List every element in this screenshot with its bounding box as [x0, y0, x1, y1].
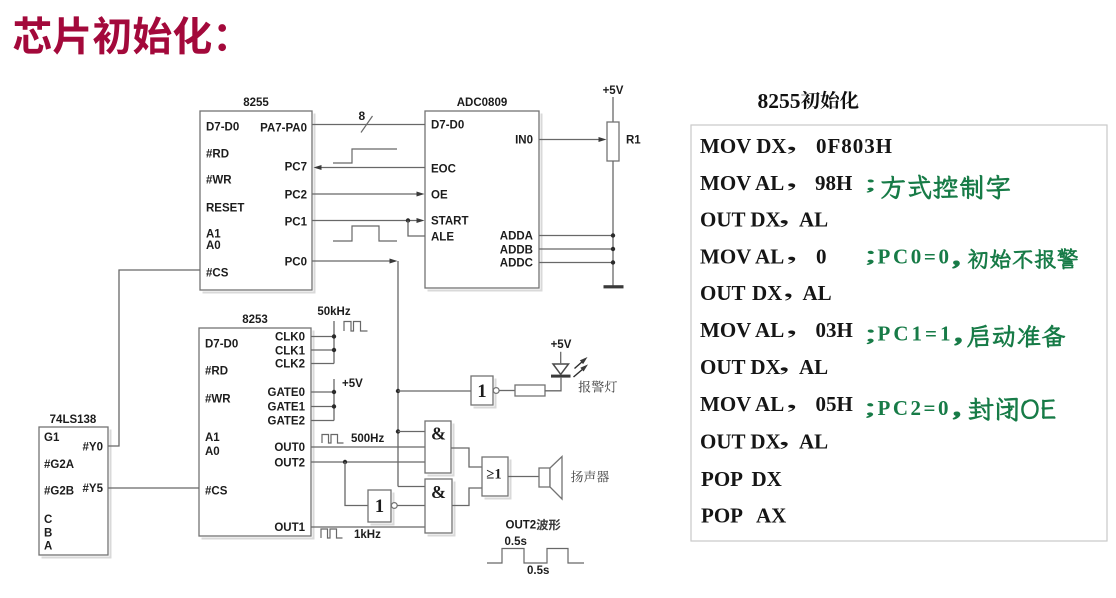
wire CLK2 — [311, 363, 334, 365]
svg-text:A: A — [44, 541, 52, 553]
svg-text:PA7-PA0: PA7-PA0 — [260, 123, 307, 135]
LED D1 cathode bar — [551, 375, 571, 378]
svg-text:+5V: +5V — [342, 378, 363, 390]
svg-text:A1: A1 — [205, 432, 220, 444]
LED light arrow 2 — [574, 369, 584, 378]
wire IN0 to R1 — [539, 139, 600, 141]
wire PC0 node to inverter U9 — [398, 390, 471, 392]
svg-text:#G2B: #G2B — [44, 486, 74, 498]
wire OUT2 branch to inverter — [345, 462, 368, 506]
wire #Y0 to 8255 #CS — [108, 270, 200, 446]
svg-text:AX: AX — [756, 503, 786, 527]
wire PC0 branch to AND1 — [398, 431, 425, 433]
svg-text:OUT DX: OUT DX — [700, 208, 781, 232]
IC U3 8253 body — [202, 331, 314, 539]
node ADDA — [611, 233, 615, 237]
wire CLK1 — [311, 349, 334, 351]
wire OUT2 to AND1 — [311, 461, 425, 463]
waveform rising edge (EOC) — [333, 149, 397, 163]
svg-text:PC2=0: PC2=0 — [878, 396, 949, 420]
svg-text:PC1: PC1 — [285, 217, 308, 229]
svg-text:MOV AL: MOV AL — [700, 318, 784, 342]
wire AND2 out to OR — [452, 488, 482, 506]
AND gate U6 body — [428, 424, 454, 476]
svg-text:PC1=1: PC1=1 — [878, 322, 951, 346]
svg-text:OUT: OUT — [700, 281, 746, 305]
wire ADDB to net — [539, 248, 613, 250]
junction dot START/ALE branch — [406, 218, 410, 222]
svg-text:OE: OE — [431, 190, 448, 202]
code comment 6 ；PC1=1，启动准备 — [867, 330, 874, 344]
svg-text:8: 8 — [359, 109, 366, 123]
svg-text:#WR: #WR — [206, 175, 232, 187]
svg-text:#Y0: #Y0 — [83, 442, 103, 454]
arrowhead PC0 corner — [390, 259, 398, 264]
waveform symbol 500Hz — [322, 435, 344, 444]
ground — [604, 285, 624, 288]
svg-text:03H: 03H — [816, 318, 853, 342]
speaker cone box — [539, 468, 550, 487]
svg-text:AL: AL — [799, 429, 828, 453]
svg-text:#Y5: #Y5 — [83, 483, 104, 495]
wire PC0 vertical run — [397, 261, 399, 487]
node PC0 to alarm inverter — [396, 389, 400, 393]
svg-text:B: B — [44, 528, 52, 540]
svg-text:AL: AL — [803, 281, 832, 305]
svg-text:ALE: ALE — [431, 232, 454, 244]
svg-text:0.5s: 0.5s — [527, 565, 549, 577]
wire OUT0 to AND1 — [311, 446, 425, 448]
svg-text:#CS: #CS — [205, 486, 228, 498]
inverter U5 bubble — [391, 503, 397, 509]
svg-text:0.5s: 0.5s — [505, 536, 527, 548]
arrowhead into R1 — [599, 137, 607, 142]
arrowhead into PC7 — [314, 165, 322, 170]
svg-text:ADDC: ADDC — [500, 258, 533, 270]
svg-text:GATE0: GATE0 — [268, 387, 306, 399]
node GATE0 — [332, 390, 336, 394]
slide title 芯片初始化： — [14, 16, 227, 55]
svg-text:8255: 8255 — [243, 97, 269, 109]
svg-text:#WR: #WR — [205, 394, 231, 406]
svg-text:MOV DX: MOV DX — [700, 134, 787, 158]
svg-text:MOV AL: MOV AL — [700, 392, 784, 416]
waveform symbol 50kHz — [344, 322, 368, 332]
code comment 4 ；PC0=0，初始不报警 — [867, 251, 874, 265]
waveform pulse (START) — [333, 226, 397, 241]
svg-text:PC0: PC0 — [285, 257, 307, 269]
svg-text:MOV AL: MOV AL — [700, 244, 784, 268]
IC U2 ADC0809 body — [428, 114, 542, 291]
svg-text:IN0: IN0 — [515, 135, 533, 147]
svg-text:GATE2: GATE2 — [268, 416, 306, 428]
code comment 2 ；方式控制字 — [867, 180, 874, 192]
svg-text:&: & — [431, 482, 446, 502]
label OUT2波形 (CJK) — [537, 519, 561, 531]
svg-text:D7-D0: D7-D0 — [205, 339, 238, 351]
svg-text:EOC: EOC — [431, 164, 456, 176]
svg-text:MOV AL: MOV AL — [700, 171, 784, 195]
wire resistor to LED — [545, 378, 562, 391]
svg-text:#RD: #RD — [206, 149, 229, 161]
svg-text:OUT DX: OUT DX — [700, 429, 781, 453]
svg-text:CLK2: CLK2 — [275, 359, 305, 371]
svg-text:D7-D0: D7-D0 — [431, 120, 464, 132]
code header 初始化 (CJK) — [801, 91, 859, 109]
speaker horn — [550, 457, 562, 500]
svg-text:DX: DX — [752, 467, 782, 491]
svg-text:OUT2: OUT2 — [506, 520, 537, 532]
svg-text:#G2A: #G2A — [44, 459, 74, 471]
svg-text:8255: 8255 — [758, 89, 801, 113]
wire +5V lead — [612, 97, 614, 122]
resistor R1 — [607, 122, 619, 161]
svg-text:0F803H: 0F803H — [816, 134, 892, 158]
bus slash mark — [361, 116, 373, 133]
wire PC0 branch to AND2 — [398, 486, 425, 488]
svg-text:RESET: RESET — [206, 203, 244, 215]
svg-text:DX: DX — [752, 281, 782, 305]
wire EOC to PC7 — [316, 167, 425, 169]
IC U1 8255 body — [203, 114, 315, 293]
svg-text:+5V: +5V — [551, 339, 572, 351]
wire ADDA to net — [539, 235, 613, 237]
node OUT2 branch — [343, 460, 347, 464]
svg-text:CLK1: CLK1 — [275, 346, 306, 358]
svg-text:A0: A0 — [205, 446, 220, 458]
wire ADDC to net — [539, 262, 613, 264]
svg-text:≥1: ≥1 — [486, 467, 501, 483]
svg-text:OUT DX: OUT DX — [700, 355, 781, 379]
wire PC0 output — [312, 260, 391, 262]
arrowhead into OE — [417, 192, 425, 197]
label 报警灯 — [579, 381, 618, 393]
svg-text:D7-D0: D7-D0 — [206, 122, 239, 134]
net CLK vertical — [333, 321, 335, 364]
resistor (LED series) — [515, 385, 545, 396]
svg-text:START: START — [431, 216, 468, 228]
wire LED anode lead — [560, 352, 562, 364]
waveform symbol 1kHz — [321, 529, 343, 538]
svg-text:ADDA: ADDA — [500, 231, 533, 243]
svg-text:OUT1: OUT1 — [274, 522, 305, 534]
net GATE vertical (+5V) — [333, 379, 335, 421]
LED D1 triangle — [553, 364, 569, 374]
wire PC1 to START — [312, 220, 418, 222]
node ADDB — [611, 247, 615, 251]
wire #Y5 to 8253 #CS — [108, 487, 199, 489]
wire PC2 to OE — [312, 193, 418, 195]
node CLK1 — [332, 348, 336, 352]
svg-text:R1: R1 — [626, 135, 641, 147]
svg-text:8253: 8253 — [242, 314, 268, 326]
wire GATE0 — [311, 391, 334, 393]
AND gate U7 body — [428, 482, 455, 536]
wire data bus PA7-PA0 to ADC D7-D0 — [312, 124, 425, 126]
wire branch to ALE — [408, 221, 425, 237]
svg-text:OUT2: OUT2 — [274, 458, 305, 470]
svg-text:500Hz: 500Hz — [351, 433, 384, 445]
svg-text:A0: A0 — [206, 240, 221, 252]
svg-text:05H: 05H — [816, 392, 853, 416]
svg-text:#RD: #RD — [205, 366, 228, 378]
svg-text:PC0=0: PC0=0 — [878, 244, 950, 268]
svg-text:#CS: #CS — [206, 268, 229, 280]
node GATE1 — [332, 404, 336, 408]
node PC0 to AND1 — [396, 429, 400, 433]
wire U9 out to resistor — [499, 390, 515, 392]
svg-text:1kHz: 1kHz — [354, 529, 381, 541]
svg-text:50kHz: 50kHz — [317, 306, 350, 318]
svg-text:AL: AL — [799, 355, 828, 379]
svg-text:POP: POP — [701, 503, 743, 527]
svg-text:PC7: PC7 — [285, 162, 307, 174]
wire GATE1 — [311, 406, 334, 408]
label 扬声器 — [571, 471, 609, 483]
node ADDC — [611, 260, 615, 264]
inverter gate U9 (alarm) body — [474, 379, 496, 408]
svg-text:CLK0: CLK0 — [275, 332, 305, 344]
code comment 8 ；PC2=0，封闭OE — [867, 404, 874, 418]
svg-text:ADC0809: ADC0809 — [457, 97, 508, 109]
arrowhead into START — [417, 218, 425, 223]
svg-text:POP: POP — [701, 467, 743, 491]
wire CLK0 — [311, 336, 334, 338]
svg-text:GATE1: GATE1 — [268, 402, 306, 414]
svg-text:1: 1 — [477, 382, 486, 402]
inverter U9 bubble — [493, 388, 499, 394]
wire R1 to ground — [612, 161, 614, 286]
code panel border — [691, 125, 1107, 541]
svg-text:PC2: PC2 — [285, 190, 307, 202]
svg-text:+5V: +5V — [603, 85, 624, 97]
node CLK0 — [332, 334, 336, 338]
inverter gate U5 (OUT2) body — [371, 493, 394, 525]
svg-text:ADDB: ADDB — [500, 245, 533, 257]
svg-text:0: 0 — [816, 244, 827, 268]
wire GATE2 — [311, 420, 334, 422]
LED light arrow 1 — [575, 361, 584, 369]
svg-text:A1: A1 — [206, 229, 221, 241]
waveform OUT2 — [487, 549, 584, 564]
svg-text:98H: 98H — [815, 171, 852, 195]
wire inverter U5 out to AND2 — [397, 505, 425, 507]
svg-text:G1: G1 — [44, 432, 60, 444]
svg-text:74LS138: 74LS138 — [50, 414, 97, 426]
svg-text:1: 1 — [375, 497, 384, 517]
OR gate U8 body — [485, 460, 511, 499]
svg-text:OUT0: OUT0 — [274, 442, 305, 454]
wire AND1 out to OR — [451, 448, 482, 467]
wire OUT1 to AND2 — [311, 526, 425, 528]
svg-text:&: & — [431, 424, 446, 444]
svg-text:AL: AL — [799, 208, 828, 232]
wire OR out to speaker — [508, 476, 539, 478]
svg-text:C: C — [44, 514, 52, 526]
IC U4 74LS138 body — [42, 430, 111, 558]
